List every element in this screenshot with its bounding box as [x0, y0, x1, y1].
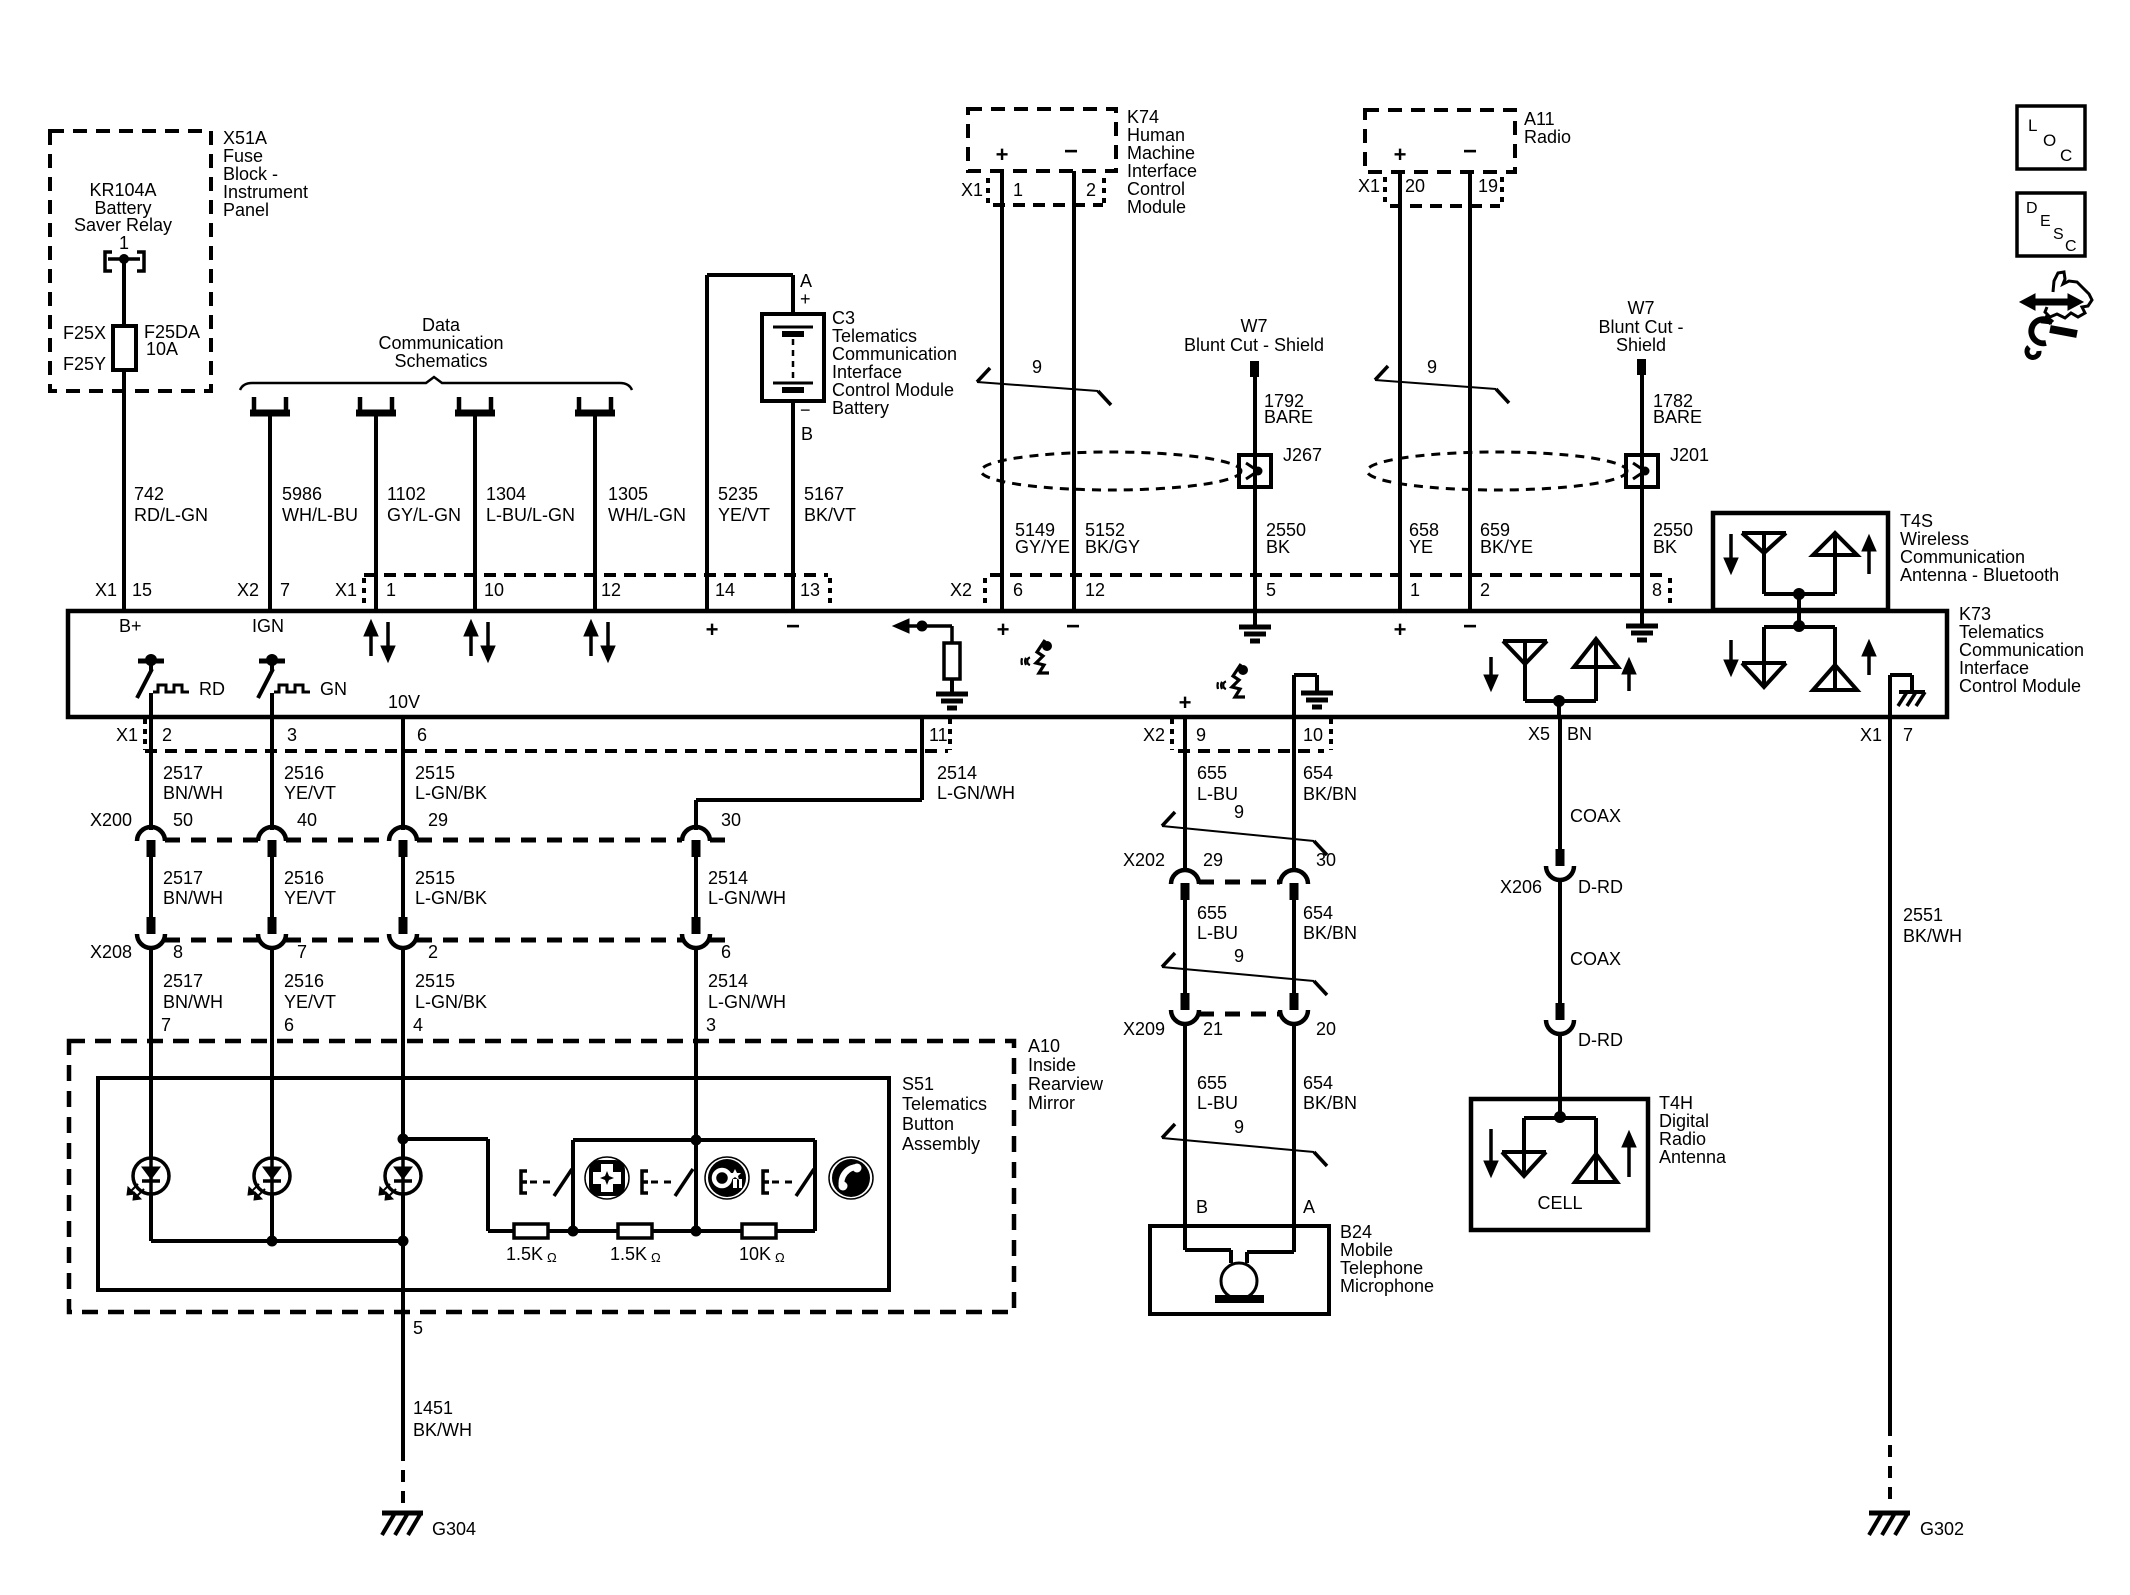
wire 2514 L-GN/WH seg1 — [920, 717, 924, 800]
svg-text:L-BU: L-BU — [1197, 1093, 1238, 1113]
svg-text:2515: 2515 — [415, 971, 455, 991]
svg-text:X1: X1 — [95, 580, 117, 600]
wire 1451 BK/WH — [401, 1241, 405, 1312]
svg-text:Module: Module — [1127, 197, 1186, 217]
svg-text:5: 5 — [413, 1318, 423, 1338]
svg-text:L-GN/WH: L-GN/WH — [708, 888, 786, 908]
svg-text:D: D — [2026, 200, 2038, 217]
svg-text:Ω: Ω — [651, 1250, 661, 1265]
speaker icon 2 — [1238, 665, 1248, 675]
svg-text:S51: S51 — [902, 1074, 934, 1094]
T4H digital radio antenna box — [1471, 1099, 1648, 1230]
svg-text:RD/L-GN: RD/L-GN — [134, 505, 208, 525]
svg-text:Human: Human — [1127, 125, 1185, 145]
wire 654 seg3 — [1292, 1026, 1296, 1226]
splice J267 — [1239, 455, 1271, 487]
LOC box — [2017, 106, 2085, 169]
svg-text:Wireless: Wireless — [1900, 529, 1969, 549]
svg-text:Fuse: Fuse — [223, 146, 263, 166]
svg-text:COAX: COAX — [1570, 949, 1621, 969]
svg-text:L-GN/WH: L-GN/WH — [708, 992, 786, 1012]
svg-text:J267: J267 — [1283, 445, 1322, 465]
svg-text:G302: G302 — [1920, 1519, 1964, 1539]
svg-text:2: 2 — [162, 725, 172, 745]
svg-text:7: 7 — [1903, 725, 1913, 745]
svg-text:X1: X1 — [335, 580, 357, 600]
svg-text:G304: G304 — [432, 1519, 476, 1539]
svg-text:GY/YE: GY/YE — [1015, 537, 1070, 557]
svg-text:654: 654 — [1303, 1073, 1333, 1093]
resistor R1 1.5K — [514, 1224, 548, 1238]
svg-text:Mirror: Mirror — [1028, 1093, 1075, 1113]
relay KR104A contact — [105, 252, 112, 271]
T4S antennas — [1729, 534, 1733, 560]
svg-text:19: 19 — [1478, 176, 1498, 196]
svg-text:Interface: Interface — [832, 362, 902, 382]
shield ellipse J267 — [981, 452, 1241, 490]
K73 module box — [68, 611, 1947, 717]
svg-text:2: 2 — [1086, 180, 1096, 200]
svg-text:KR104A: KR104A — [89, 180, 156, 200]
LED 2 — [270, 1078, 274, 1158]
svg-text:9: 9 — [1032, 357, 1042, 377]
svg-text:2516: 2516 — [284, 868, 324, 888]
svg-text:A11: A11 — [1524, 109, 1555, 129]
svg-text:10: 10 — [1303, 725, 1323, 745]
chassis ground X1 7 — [1888, 675, 1892, 717]
loc icon arrow car wrench — [2033, 299, 2069, 306]
svg-text:BK/BN: BK/BN — [1303, 923, 1357, 943]
svg-text:Inside: Inside — [1028, 1055, 1076, 1075]
wire 742 RD/L-GN — [122, 370, 126, 611]
wire 655 seg3 — [1183, 1026, 1187, 1226]
svg-text:E: E — [2040, 213, 2051, 230]
svg-text:2517: 2517 — [163, 868, 203, 888]
battery C3 wires — [705, 275, 709, 611]
wire 2515 seg3 — [401, 950, 405, 1078]
svg-text:1: 1 — [1013, 180, 1023, 200]
svg-text:13: 13 — [800, 580, 820, 600]
svg-text:2514: 2514 — [708, 971, 748, 991]
twisted pair 9 mic 2 — [1162, 967, 1314, 981]
wire 1102 GY/L-GN — [374, 416, 378, 611]
svg-text:YE/VT: YE/VT — [284, 992, 336, 1012]
svg-text:Microphone: Microphone — [1340, 1276, 1434, 1296]
svg-text:YE/VT: YE/VT — [284, 888, 336, 908]
svg-text:Schematics: Schematics — [394, 351, 487, 371]
svg-text:2516: 2516 — [284, 763, 324, 783]
wire pin3 to switch rail — [694, 1078, 698, 1231]
svg-text:B: B — [1196, 1197, 1208, 1217]
svg-text:C3: C3 — [832, 308, 855, 328]
ground pin 5 — [1253, 611, 1257, 627]
svg-text:Machine: Machine — [1127, 143, 1195, 163]
svg-text:COAX: COAX — [1570, 806, 1621, 826]
icon emergency cross — [585, 1157, 629, 1199]
svg-text:C: C — [2065, 238, 2077, 255]
wire 2516 seg2 — [270, 857, 274, 917]
svg-text:X209: X209 — [1123, 1019, 1165, 1039]
svg-text:W7: W7 — [1241, 316, 1268, 336]
svg-text:X1: X1 — [961, 180, 983, 200]
svg-text:T4H: T4H — [1659, 1093, 1693, 1113]
svg-text:J201: J201 — [1670, 445, 1709, 465]
wire 2517 seg2 — [149, 857, 153, 917]
data arrows pins 1 10 12 — [369, 634, 373, 656]
svg-text:Battery: Battery — [832, 398, 889, 418]
svg-text:9: 9 — [1234, 946, 1244, 966]
wire 2514 seg3 — [694, 950, 698, 1078]
svg-text:1: 1 — [119, 233, 129, 253]
svg-text:BK/WH: BK/WH — [1903, 926, 1962, 946]
svg-text:Antenna: Antenna — [1659, 1147, 1727, 1167]
svg-text:1.5K: 1.5K — [610, 1244, 647, 1264]
twisted pair 9 mic 3 — [1162, 1138, 1314, 1152]
svg-text:40: 40 — [297, 810, 317, 830]
wire 5152 BK/GY — [1072, 171, 1076, 611]
wire 2516 YE/VT seg1 — [270, 717, 274, 830]
svg-text:7: 7 — [297, 942, 307, 962]
svg-text:+: + — [1394, 142, 1407, 167]
svg-text:11: 11 — [929, 725, 948, 745]
svg-text:YE/VT: YE/VT — [284, 783, 336, 803]
svg-text:Ω: Ω — [775, 1250, 785, 1265]
svg-text:+: + — [800, 289, 811, 309]
svg-text:Interface: Interface — [1959, 658, 2029, 678]
svg-text:BK: BK — [1266, 537, 1290, 557]
svg-text:L-GN/BK: L-GN/BK — [415, 888, 487, 908]
svg-text:50: 50 — [173, 810, 193, 830]
svg-text:Instrument: Instrument — [223, 182, 308, 202]
svg-text:S: S — [2053, 226, 2064, 243]
svg-text:Blunt Cut - Shield: Blunt Cut - Shield — [1184, 335, 1324, 355]
pin 11 arrow resistor ground — [907, 624, 922, 628]
svg-text:1305: 1305 — [608, 484, 648, 504]
wire X5 BN coax — [1558, 717, 1562, 849]
svg-text:10K: 10K — [739, 1244, 771, 1264]
svg-text:1.5K: 1.5K — [506, 1244, 543, 1264]
ground G302 — [1869, 1511, 1910, 1516]
svg-text:9: 9 — [1234, 802, 1244, 822]
wire 1304 L-BU/L-GN — [473, 416, 477, 611]
twisted pair 9 A11 — [1375, 380, 1496, 389]
svg-text:12: 12 — [1085, 580, 1105, 600]
ground G304 — [382, 1511, 423, 1516]
svg-text:BK/GY: BK/GY — [1085, 537, 1140, 557]
A10 inside rearview mirror dashed box — [69, 1041, 1014, 1312]
LED 1 — [149, 1078, 153, 1158]
microphone symbol — [1183, 1226, 1187, 1250]
svg-text:−: − — [1463, 613, 1477, 640]
connector X206 b — [1556, 1003, 1565, 1020]
resistor R3 10K — [742, 1224, 776, 1238]
svg-text:1304: 1304 — [486, 484, 526, 504]
wire relay to fuse — [122, 259, 126, 326]
LED 3 — [401, 1078, 405, 1158]
svg-text:2517: 2517 — [163, 763, 203, 783]
svg-text:D-RD: D-RD — [1578, 1030, 1623, 1050]
svg-text:RD: RD — [199, 679, 225, 699]
svg-text:9: 9 — [1427, 357, 1437, 377]
svg-text:X5: X5 — [1528, 724, 1550, 744]
svg-text:15: 15 — [132, 580, 152, 600]
icon phone — [829, 1157, 873, 1199]
svg-text:2517: 2517 — [163, 971, 203, 991]
svg-text:BN/WH: BN/WH — [163, 992, 223, 1012]
wire 2517 seg3 — [149, 950, 153, 1078]
speaker icon 1 — [1042, 641, 1052, 651]
svg-text:K73: K73 — [1959, 604, 1991, 624]
svg-text:L-GN/BK: L-GN/BK — [415, 783, 487, 803]
svg-text:X2: X2 — [950, 580, 972, 600]
T4H antennas — [1558, 1099, 1562, 1117]
svg-text:Interface: Interface — [1127, 161, 1197, 181]
svg-text:A: A — [1303, 1197, 1315, 1217]
svg-text:3: 3 — [706, 1015, 716, 1035]
svg-text:5235: 5235 — [718, 484, 758, 504]
svg-text:X1: X1 — [1358, 176, 1380, 196]
svg-text:−: − — [786, 613, 800, 640]
svg-text:Antenna - Bluetooth: Antenna - Bluetooth — [1900, 565, 2059, 585]
svg-text:L-GN/BK: L-GN/BK — [415, 992, 487, 1012]
svg-text:BK: BK — [1653, 537, 1677, 557]
svg-text:Radio: Radio — [1524, 127, 1571, 147]
svg-text:20: 20 — [1405, 176, 1425, 196]
resistor R2 1.5K — [618, 1224, 652, 1238]
svg-text:Shield: Shield — [1616, 335, 1666, 355]
connector X206 a — [1556, 849, 1565, 866]
svg-text:+: + — [1179, 690, 1192, 715]
X2 connector dashed line — [983, 578, 987, 604]
svg-text:Rearview: Rearview — [1028, 1074, 1104, 1094]
svg-text:2516: 2516 — [284, 971, 324, 991]
X1 connector dashed line — [364, 573, 828, 577]
switch 2 pushbutton — [642, 1171, 648, 1193]
ground pin 10 — [1292, 675, 1296, 717]
svg-text:1: 1 — [1410, 580, 1420, 600]
svg-text:29: 29 — [428, 810, 448, 830]
K73 bluetooth antenna pair left — [1489, 657, 1493, 677]
svg-text:30: 30 — [721, 810, 741, 830]
svg-text:2551: 2551 — [1903, 905, 1943, 925]
svg-text:CELL: CELL — [1537, 1193, 1582, 1213]
svg-text:BARE: BARE — [1653, 407, 1702, 427]
svg-text:Control Module: Control Module — [1959, 676, 2081, 696]
svg-text:Digital: Digital — [1659, 1111, 1709, 1131]
X51A fuse block dashed box — [50, 131, 211, 391]
data connector stubs — [252, 397, 257, 411]
svg-text:Telephone: Telephone — [1340, 1258, 1423, 1278]
svg-text:Button: Button — [902, 1114, 954, 1134]
RD coil switch — [138, 659, 164, 664]
svg-text:F25X: F25X — [63, 323, 106, 343]
svg-text:D-RD: D-RD — [1578, 877, 1623, 897]
svg-text:+: + — [996, 142, 1009, 167]
svg-text:−: − — [1064, 138, 1078, 165]
svg-text:655: 655 — [1197, 1073, 1227, 1093]
svg-text:Communication: Communication — [1959, 640, 2084, 660]
svg-text:10V: 10V — [388, 692, 420, 712]
svg-text:X2: X2 — [1143, 725, 1165, 745]
svg-text:Blunt Cut -: Blunt Cut - — [1598, 317, 1683, 337]
svg-text:L-GN/WH: L-GN/WH — [937, 783, 1015, 803]
brace — [240, 377, 632, 390]
svg-text:21: 21 — [1203, 1019, 1223, 1039]
svg-text:2515: 2515 — [415, 763, 455, 783]
svg-text:6: 6 — [721, 942, 731, 962]
svg-text:9: 9 — [1196, 725, 1206, 745]
svg-text:+: + — [706, 617, 719, 642]
svg-text:5986: 5986 — [282, 484, 322, 504]
svg-text:BK/VT: BK/VT — [804, 505, 856, 525]
twisted pair 9 mic 1 — [1162, 826, 1314, 841]
svg-text:L-BU: L-BU — [1197, 923, 1238, 943]
svg-text:Assembly: Assembly — [902, 1134, 980, 1154]
svg-text:BK/BN: BK/BN — [1303, 784, 1357, 804]
svg-text:14: 14 — [715, 580, 735, 600]
svg-text:8: 8 — [1652, 580, 1662, 600]
wire 5986 WH/L-BU — [268, 416, 272, 611]
svg-text:2515: 2515 — [415, 868, 455, 888]
svg-text:WH/L-BU: WH/L-BU — [282, 505, 358, 525]
wire 659 BK/YE — [1468, 172, 1472, 611]
T4S antenna box — [1713, 513, 1888, 610]
splice J201 — [1626, 455, 1658, 487]
svg-text:1102: 1102 — [387, 484, 426, 504]
svg-text:X206: X206 — [1500, 877, 1542, 897]
svg-text:BN: BN — [1567, 724, 1592, 744]
svg-text:W7: W7 — [1628, 298, 1655, 318]
svg-text:X1: X1 — [116, 725, 138, 745]
svg-text:GY/L-GN: GY/L-GN — [387, 505, 461, 525]
svg-text:Communication: Communication — [1900, 547, 2025, 567]
svg-text:−: − — [1066, 613, 1080, 640]
GN coil switch — [259, 659, 285, 664]
svg-text:WH/L-GN: WH/L-GN — [608, 505, 686, 525]
svg-text:BN/WH: BN/WH — [163, 783, 223, 803]
svg-text:4: 4 — [413, 1015, 423, 1035]
S51 telematics button assembly box — [98, 1078, 889, 1290]
svg-text:5167: 5167 — [804, 484, 844, 504]
wire 2517 BN/WH seg1 — [149, 717, 153, 830]
svg-text:GN: GN — [320, 679, 347, 699]
wire 1305 WH/L-GN — [593, 416, 597, 611]
svg-text:654: 654 — [1303, 763, 1333, 783]
svg-text:20: 20 — [1316, 1019, 1336, 1039]
svg-text:2514: 2514 — [708, 868, 748, 888]
svg-text:+: + — [997, 617, 1010, 642]
svg-text:X208: X208 — [90, 942, 132, 962]
svg-text:T4S: T4S — [1900, 511, 1933, 531]
svg-text:Communication: Communication — [832, 344, 957, 364]
wire 655 L-BU seg1 — [1183, 717, 1187, 868]
switch 3 pushbutton — [763, 1171, 769, 1193]
svg-text:Radio: Radio — [1659, 1129, 1706, 1149]
svg-text:L-BU/L-GN: L-BU/L-GN — [486, 505, 575, 525]
svg-text:Block -: Block - — [223, 164, 278, 184]
connector X209 — [1181, 993, 1190, 1010]
svg-text:F25Y: F25Y — [63, 354, 106, 374]
svg-text:BARE: BARE — [1264, 407, 1313, 427]
svg-text:B24: B24 — [1340, 1222, 1372, 1242]
svg-text:655: 655 — [1197, 763, 1227, 783]
svg-text:Panel: Panel — [223, 200, 269, 220]
svg-text:6: 6 — [417, 725, 427, 745]
wire 2551 BK/WH — [1888, 717, 1892, 1424]
svg-text:+: + — [1394, 617, 1407, 642]
icon onstar — [705, 1157, 749, 1199]
svg-text:29: 29 — [1203, 850, 1223, 870]
svg-text:Telematics: Telematics — [1959, 622, 2044, 642]
svg-text:Saver Relay: Saver Relay — [74, 215, 172, 235]
svg-text:A: A — [800, 271, 812, 291]
svg-text:B+: B+ — [119, 616, 142, 636]
svg-text:655: 655 — [1197, 903, 1227, 923]
svg-text:−: − — [1463, 138, 1477, 165]
svg-text:Communication: Communication — [378, 333, 503, 353]
wire 5149 GY/YE — [1000, 171, 1004, 611]
svg-text:10A: 10A — [146, 339, 178, 359]
svg-text:YE: YE — [1409, 537, 1433, 557]
wire 2516 seg3 — [270, 950, 274, 1078]
svg-text:BN/WH: BN/WH — [163, 888, 223, 908]
svg-text:X200: X200 — [90, 810, 132, 830]
svg-text:X51A: X51A — [223, 128, 267, 148]
wire 2515 seg2 — [401, 857, 405, 917]
svg-text:B: B — [801, 424, 813, 444]
svg-text:30: 30 — [1316, 850, 1336, 870]
switch 1 pushbutton — [521, 1171, 527, 1193]
wire 654 BK/BN seg1 — [1292, 717, 1296, 868]
wire 2515 L-GN/BK seg1 — [401, 717, 405, 830]
B24 microphone box — [1150, 1226, 1329, 1314]
svg-text:BK/WH: BK/WH — [413, 1420, 472, 1440]
svg-text:X202: X202 — [1123, 850, 1165, 870]
shield ellipse J201 — [1367, 452, 1627, 490]
svg-text:3: 3 — [287, 725, 297, 745]
svg-text:654: 654 — [1303, 903, 1333, 923]
svg-text:Telematics: Telematics — [902, 1094, 987, 1114]
wire 658 YE — [1398, 172, 1402, 611]
svg-text:2: 2 — [1480, 580, 1490, 600]
branch pin4 to resistor ladder — [398, 1134, 409, 1145]
twisted pair 9 K74 — [977, 382, 1098, 391]
ground pin 8 — [1640, 611, 1644, 626]
svg-text:BK/YE: BK/YE — [1480, 537, 1533, 557]
svg-text:A10: A10 — [1028, 1036, 1060, 1056]
svg-text:Mobile: Mobile — [1340, 1240, 1393, 1260]
svg-text:YE/VT: YE/VT — [718, 505, 770, 525]
svg-text:L-BU: L-BU — [1197, 784, 1238, 804]
svg-text:Ω: Ω — [547, 1250, 557, 1265]
svg-text:8: 8 — [173, 942, 183, 962]
svg-text:IGN: IGN — [252, 616, 284, 636]
svg-text:X1: X1 — [1860, 725, 1882, 745]
svg-text:5: 5 — [1266, 580, 1276, 600]
svg-text:7: 7 — [280, 580, 290, 600]
svg-text:K74: K74 — [1127, 107, 1159, 127]
svg-text:L: L — [2028, 116, 2037, 135]
svg-text:12: 12 — [601, 580, 621, 600]
wire 654 seg2 — [1292, 900, 1296, 993]
svg-text:Control: Control — [1127, 179, 1185, 199]
svg-text:O: O — [2043, 131, 2056, 150]
svg-text:7: 7 — [161, 1015, 171, 1035]
svg-text:1451: 1451 — [413, 1398, 453, 1418]
svg-text:742: 742 — [134, 484, 164, 504]
switch rail — [573, 1138, 815, 1142]
K73 antenna pair right — [1793, 620, 1805, 632]
